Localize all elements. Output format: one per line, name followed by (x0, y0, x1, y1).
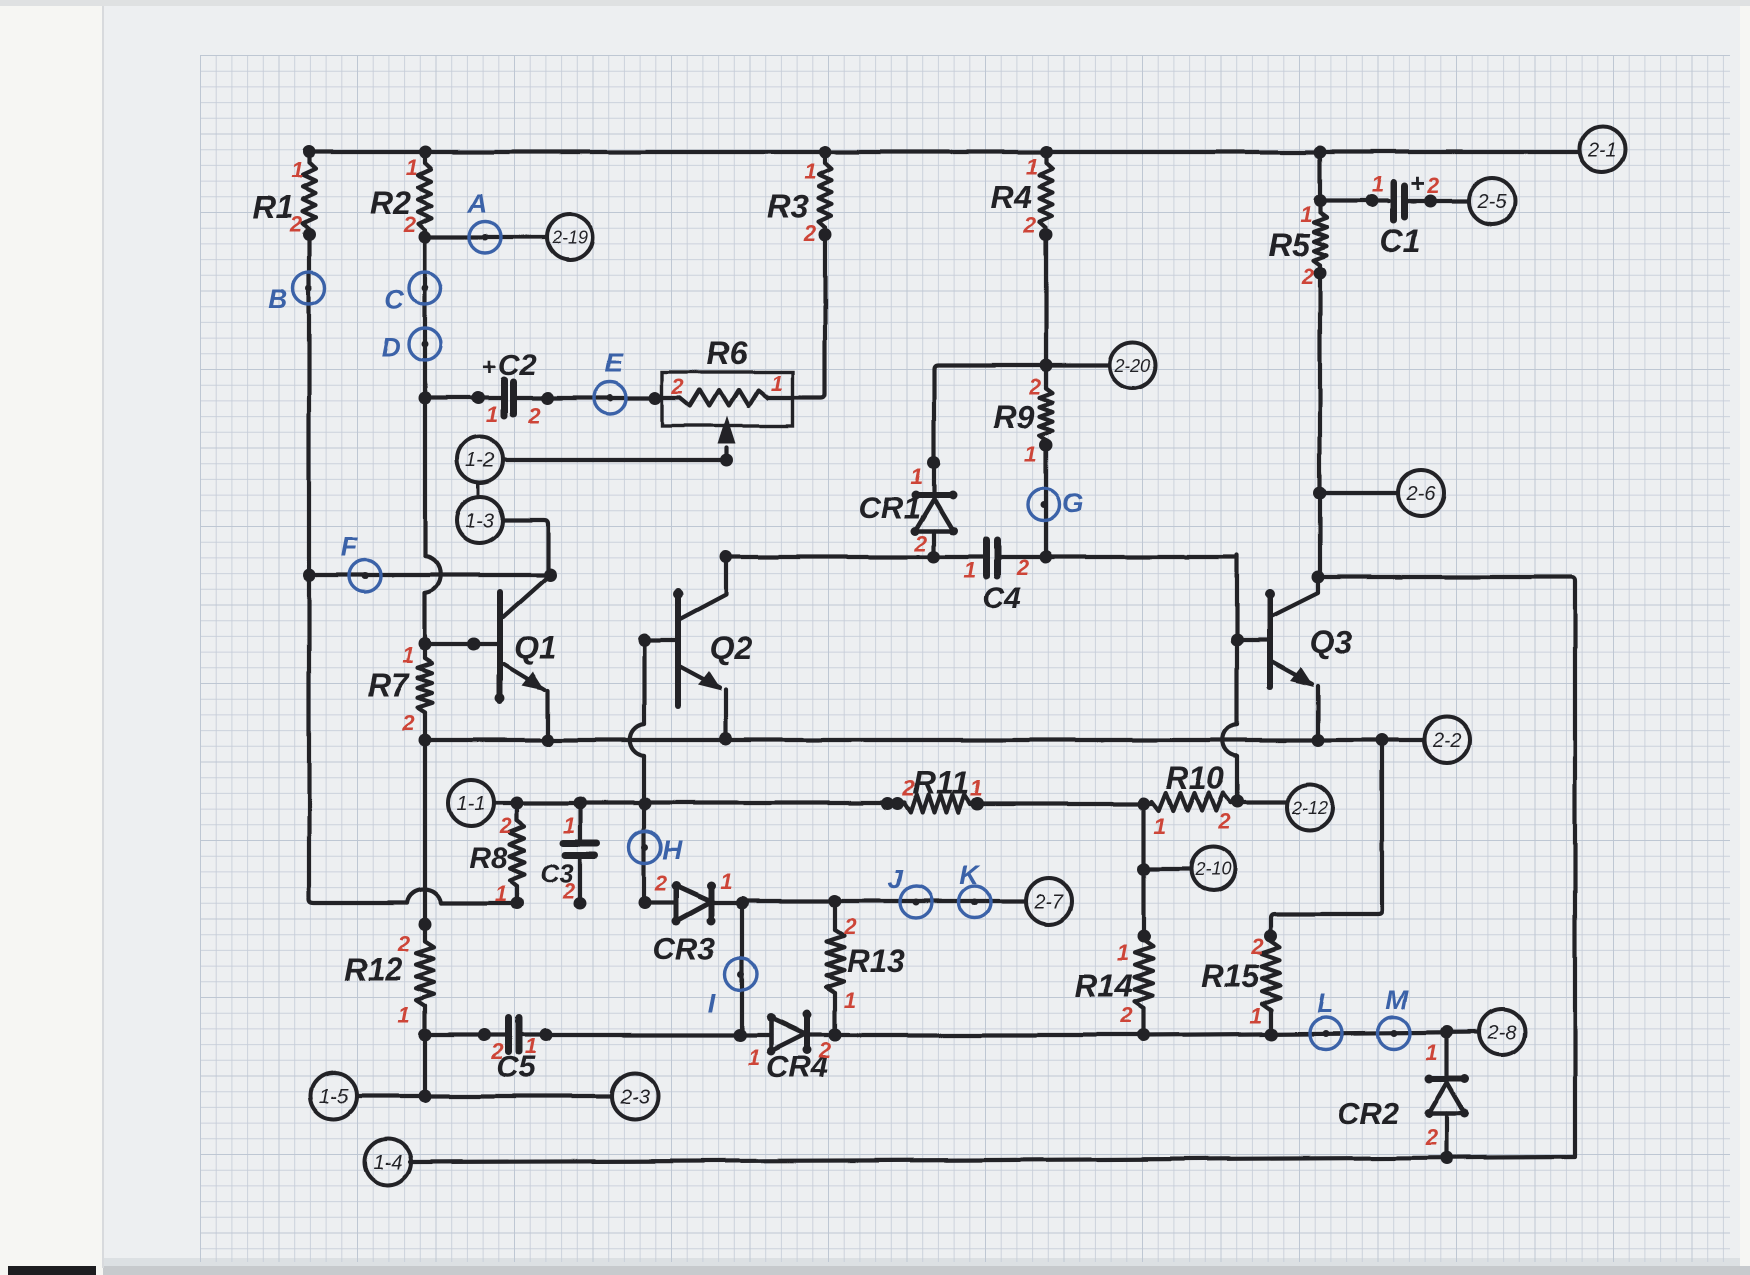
svg-text:2: 2 (1023, 213, 1037, 238)
R7 pin 2 (401, 710, 415, 735)
svg-text:Q2: Q2 (710, 630, 753, 666)
transistor Q2 (673, 557, 726, 739)
wire C4 row (Q2 collector node to CR1 and G) (720, 551, 1238, 564)
C3 label (540, 858, 574, 888)
C4 pin 2 (1016, 555, 1030, 580)
svg-text:I: I (708, 988, 716, 1018)
wire right side loop (Q3 collector row, right vertical) (1312, 571, 1576, 1157)
wire R13 column leads (829, 901, 842, 1042)
CR4 pin 1 (748, 1045, 760, 1070)
svg-text:1-1: 1-1 (457, 793, 486, 815)
CR1 label (859, 490, 921, 525)
C2 plus (482, 354, 496, 381)
wire 1-2 row to R6 wiper column (503, 454, 734, 467)
resistor R14 (1135, 940, 1153, 1035)
R10 pin 1 (1154, 814, 1166, 839)
resistor R5 (1314, 213, 1327, 265)
svg-text:E: E (605, 348, 624, 378)
svg-text:2: 2 (654, 871, 668, 896)
C4 label (983, 582, 1022, 615)
CR2 label (1337, 1096, 1399, 1131)
C5 pin 2 (491, 1039, 505, 1064)
test point G (1028, 488, 1084, 521)
R13 label (847, 943, 906, 979)
wire 1-5 to 2-3 row (357, 1094, 612, 1098)
svg-text:Q1: Q1 (514, 629, 557, 665)
potentiometer R6 (662, 372, 793, 460)
svg-text:1: 1 (1250, 1003, 1262, 1028)
R1 label (253, 189, 294, 225)
test point M (1378, 985, 1410, 1049)
wire Q3 base feed (1231, 555, 1271, 647)
R15 pin 2 (1251, 934, 1265, 959)
svg-text:2-8: 2-8 (1487, 1022, 1517, 1044)
wire emitter bus row (419, 733, 1425, 747)
node 2-10 (1191, 847, 1235, 891)
CR3 pin 1 (720, 869, 732, 894)
svg-text:M: M (1386, 985, 1409, 1015)
svg-text:1: 1 (720, 869, 732, 894)
R1 pin 2 (289, 212, 303, 237)
R8 pin 1 (495, 881, 507, 906)
transistor Q1 (495, 575, 550, 740)
R6 pin 2 (671, 374, 685, 399)
svg-text:1: 1 (291, 158, 303, 183)
svg-text:R11: R11 (913, 765, 969, 801)
R4 label (991, 179, 1032, 215)
resistor R9 (1040, 365, 1053, 445)
C3 pin 1 (563, 813, 575, 838)
svg-text:2: 2 (499, 813, 513, 838)
svg-text:1: 1 (402, 643, 414, 668)
node 2-1 (1579, 126, 1625, 172)
svg-text:R7: R7 (368, 667, 411, 703)
R13 pin 2 (843, 914, 857, 939)
svg-text:2: 2 (289, 212, 303, 237)
C1 plus (1409, 168, 1424, 198)
R8 pin 2 (499, 813, 513, 838)
svg-text:J: J (887, 864, 903, 894)
svg-text:2-19: 2-19 (551, 227, 588, 247)
svg-text:1: 1 (1371, 172, 1383, 197)
CR3 label (653, 931, 715, 966)
svg-text:2-10: 2-10 (1194, 859, 1231, 879)
R8 label (469, 842, 508, 875)
svg-text:2-6: 2-6 (1406, 483, 1437, 505)
wire top supply bus (303, 146, 1579, 159)
R11 pin 2 (902, 776, 916, 801)
R2 label (371, 185, 412, 221)
C2 label (498, 349, 537, 382)
svg-text:2: 2 (843, 914, 857, 939)
svg-text:1: 1 (563, 813, 575, 838)
R5 pin 2 (1301, 264, 1315, 289)
svg-text:2: 2 (902, 776, 916, 801)
node 2-19 (547, 214, 593, 260)
R1 pin 1 (291, 158, 303, 183)
test point K (959, 860, 991, 918)
wire C1 row (1320, 195, 1469, 208)
svg-text:C1: C1 (1380, 223, 1421, 259)
R7 label (368, 667, 411, 703)
svg-text:1: 1 (804, 159, 816, 184)
diode CR2 (1425, 1032, 1470, 1158)
svg-text:B: B (268, 284, 288, 314)
node 2-3 (612, 1073, 658, 1119)
resistor R12 (416, 941, 434, 1006)
wire R5 column lower (1314, 265, 1327, 577)
R12 pin 2 (397, 931, 411, 956)
svg-text:R5: R5 (1269, 227, 1311, 263)
svg-text:2: 2 (1251, 934, 1265, 959)
svg-text:2: 2 (1120, 1003, 1134, 1028)
node 1-5 (311, 1073, 357, 1119)
svg-text:F: F (341, 532, 359, 562)
svg-text:2: 2 (397, 931, 411, 956)
resistor R15 (1262, 941, 1280, 1034)
R6 label (707, 335, 748, 371)
test point L (1310, 988, 1342, 1049)
C5 label (497, 1051, 537, 1084)
svg-text:1: 1 (495, 881, 507, 906)
Q1 label (514, 629, 557, 665)
R9 label (994, 399, 1035, 435)
svg-text:2: 2 (1301, 264, 1315, 289)
wire R7-R12 column (419, 740, 432, 941)
svg-text:1: 1 (970, 776, 982, 801)
C3 pin 2 (562, 878, 576, 903)
capacitor C2 (504, 380, 513, 416)
svg-text:1-3: 1-3 (466, 510, 495, 532)
wire R14 column top (1138, 804, 1151, 943)
C1 pin 2 (1426, 173, 1440, 198)
wire node J K row to 2-7 (742, 895, 1026, 908)
svg-text:R12: R12 (344, 951, 403, 987)
wire node A row (R2 pin2 to 2-19) (419, 231, 548, 244)
wire L M row to 2-8 (835, 1026, 1479, 1042)
svg-text:2: 2 (1426, 173, 1440, 198)
R10 label (1166, 760, 1225, 796)
svg-text:L: L (1317, 988, 1334, 1018)
svg-text:G: G (1062, 488, 1083, 518)
svg-text:R10: R10 (1166, 760, 1225, 796)
wire R2 column lower (hops over F row) (425, 398, 441, 644)
wire 2-6 stub (1314, 487, 1399, 500)
CR1 pin 2 (914, 531, 928, 556)
wire node F row (303, 569, 557, 582)
svg-text:2: 2 (562, 878, 576, 903)
CR4 label (766, 1049, 828, 1084)
R14 label (1075, 968, 1134, 1004)
svg-text:C4: C4 (983, 582, 1022, 615)
svg-text:1-4: 1-4 (374, 1152, 403, 1174)
R15 label (1201, 958, 1261, 994)
wire CR1 top corner to 2-20 (928, 359, 1111, 470)
svg-text:1: 1 (1154, 814, 1166, 839)
wire Q3 base column to R10 (hops over emitter row) (1223, 640, 1237, 801)
svg-text:1: 1 (771, 371, 783, 396)
wire R2 column through C and D (423, 237, 427, 398)
diode CR3 (645, 882, 742, 926)
svg-text:2-7: 2-7 (1034, 891, 1065, 913)
wire 1-3 corner to Q1 collector node (503, 520, 548, 575)
wire R5 column upper (1314, 152, 1327, 213)
svg-text:2: 2 (914, 531, 928, 556)
R3 pin 2 (803, 221, 817, 246)
svg-text:Q3: Q3 (1310, 624, 1353, 660)
node 1-3 (457, 497, 503, 543)
node 2-2 (1424, 717, 1470, 763)
svg-text:1: 1 (398, 1002, 410, 1027)
svg-text:CR1: CR1 (859, 490, 921, 525)
svg-text:R15: R15 (1201, 958, 1261, 994)
resistor R10 (1152, 793, 1230, 811)
svg-text:2: 2 (401, 710, 415, 735)
svg-text:2: 2 (403, 212, 417, 237)
node 1-2 (457, 437, 503, 483)
wire bottom 1-4 row (410, 1152, 1575, 1165)
wire Q2 base column (hops over emitter row, through H) (630, 634, 678, 910)
R3 pin 1 (804, 159, 816, 184)
svg-text:2-12: 2-12 (1291, 797, 1328, 817)
test point B (268, 272, 325, 314)
svg-text:1: 1 (1026, 154, 1038, 179)
svg-text:2-3: 2-3 (620, 1086, 650, 1108)
test point D (381, 328, 441, 362)
R2 pin 2 (403, 212, 417, 237)
CR3 pin 2 (654, 871, 668, 896)
C1 pin 1 (1371, 172, 1383, 197)
svg-text:C: C (384, 284, 404, 314)
svg-text:1: 1 (1117, 940, 1129, 965)
R4 pin 2 (1023, 213, 1037, 238)
R11 pin 1 (970, 776, 982, 801)
node 2-5 (1469, 178, 1515, 224)
R4 pin 1 (1026, 154, 1038, 179)
svg-text:1-5: 1-5 (320, 1086, 350, 1108)
node 2-12 (1287, 784, 1333, 830)
svg-text:2: 2 (1016, 555, 1030, 580)
CR2 pin 2 (1425, 1125, 1439, 1150)
resistor R8 (510, 803, 525, 910)
resistor R4 (1040, 152, 1053, 235)
svg-text:R1: R1 (253, 189, 294, 225)
wire left column (R1 bottom to bottom-left corner) (303, 229, 518, 904)
node 1-1 (448, 780, 494, 826)
CR2 pin 1 (1426, 1040, 1438, 1065)
capacitor C4 (986, 540, 997, 576)
C2 pin 2 (527, 403, 541, 428)
svg-text:+: + (1409, 168, 1424, 198)
svg-text:CR3: CR3 (653, 931, 715, 966)
R15 pin 1 (1250, 1003, 1262, 1028)
svg-text:1: 1 (964, 558, 976, 583)
svg-text:2-1: 2-1 (1587, 139, 1617, 161)
svg-text:C2: C2 (498, 349, 537, 382)
test point E (594, 348, 626, 414)
svg-text:2: 2 (1425, 1125, 1439, 1150)
svg-text:R4: R4 (991, 179, 1032, 215)
test point J (887, 864, 932, 918)
svg-text:2: 2 (527, 403, 541, 428)
R6 pin 1 (771, 371, 783, 396)
C4 pin 1 (964, 558, 976, 583)
svg-text:R13: R13 (847, 943, 906, 979)
resistor R13 (826, 930, 844, 993)
wire 2-12 stub (1230, 795, 1287, 808)
node 2-20 (1110, 342, 1156, 388)
svg-text:1: 1 (525, 1034, 537, 1059)
node 2-8 (1479, 1009, 1525, 1055)
svg-text:1: 1 (1426, 1040, 1438, 1065)
R11 label (913, 765, 969, 801)
node 2-6 (1398, 470, 1444, 516)
svg-text:1: 1 (406, 155, 418, 180)
wire 1-2 tail (477, 484, 480, 497)
svg-text:2: 2 (1028, 374, 1042, 399)
R7 pin 1 (402, 643, 414, 668)
svg-text:D: D (381, 332, 401, 362)
svg-text:2-5: 2-5 (1477, 191, 1508, 213)
wire C5 CR4 row (425, 1029, 842, 1042)
test point I (708, 958, 757, 1018)
node 1-4 (365, 1139, 411, 1185)
wire Q1 base row (419, 638, 501, 651)
svg-text:1: 1 (1025, 442, 1037, 467)
test point H (629, 831, 682, 865)
R14 pin 2 (1120, 1003, 1134, 1028)
svg-text:1: 1 (486, 402, 498, 427)
node 2-7 (1026, 878, 1072, 924)
wire 1-1 row (494, 797, 905, 811)
svg-text:2: 2 (803, 221, 817, 246)
capacitor C5 (509, 1018, 519, 1052)
R14 pin 1 (1117, 940, 1129, 965)
R12 label (344, 951, 403, 987)
svg-text:CR2: CR2 (1337, 1096, 1399, 1131)
wire R15 branch from emitter row (1265, 740, 1383, 943)
wire R3 drop to R6 pin 1 (793, 229, 832, 399)
svg-text:+: + (482, 354, 496, 381)
svg-text:R8: R8 (469, 842, 508, 875)
svg-text:R14: R14 (1075, 968, 1134, 1004)
transistor Q3 (1265, 577, 1318, 740)
svg-text:R6: R6 (707, 335, 748, 371)
R9 pin 1 (1025, 442, 1037, 467)
svg-text:2: 2 (491, 1039, 505, 1064)
svg-text:2: 2 (671, 374, 685, 399)
Q3 label (1310, 624, 1353, 660)
resistor R11 (905, 795, 970, 813)
svg-text:1: 1 (1300, 202, 1312, 227)
wire R4 to R9 segment (1040, 229, 1053, 366)
svg-text:K: K (959, 860, 981, 890)
wire C2 row (419, 392, 663, 405)
svg-text:2-20: 2-20 (1114, 355, 1151, 375)
R5 pin 1 (1300, 202, 1312, 227)
C2 pin 1 (486, 402, 498, 427)
resistor R1 (303, 152, 316, 235)
C5 pin 1 (525, 1034, 537, 1059)
svg-text:2: 2 (1217, 809, 1231, 834)
wire 2-10 stub (1138, 863, 1191, 876)
diode CR4 (767, 1011, 812, 1056)
wire R12 to 1-5 row (419, 1006, 432, 1103)
R12 pin 1 (398, 1002, 410, 1027)
resistor R2 (419, 152, 432, 237)
resistor R7 (418, 644, 433, 740)
CR4 pin 2 (818, 1038, 832, 1063)
R13 pin 1 (844, 988, 856, 1013)
wire node I column (736, 897, 749, 1036)
resistor R3 (819, 152, 832, 235)
svg-text:R3: R3 (768, 189, 809, 225)
wire node G column (1040, 439, 1053, 558)
R3 label (768, 189, 809, 225)
diode CR1 (911, 463, 958, 557)
svg-text:1-2: 1-2 (466, 450, 495, 472)
R2 pin 1 (406, 155, 418, 180)
R10 pin 2 (1217, 809, 1231, 834)
svg-text:2: 2 (818, 1038, 832, 1063)
svg-text:1: 1 (844, 988, 856, 1013)
wire R11-R14 junction row (970, 798, 1152, 811)
test point A (466, 188, 501, 253)
capacitor C1 (1393, 183, 1404, 220)
R5 label (1269, 227, 1311, 263)
svg-text:A: A (466, 188, 487, 218)
svg-text:2-2: 2-2 (1432, 730, 1462, 752)
C1 label (1380, 223, 1421, 259)
svg-text:1: 1 (911, 464, 923, 489)
test point C (384, 272, 441, 314)
svg-text:R9: R9 (994, 399, 1035, 435)
capacitor C3 (563, 803, 597, 910)
CR1 pin 1 (911, 464, 923, 489)
test point F (341, 532, 381, 592)
svg-text:1: 1 (748, 1045, 760, 1070)
svg-text:H: H (662, 835, 682, 865)
R9 pin 2 (1028, 374, 1042, 399)
Q2 label (710, 630, 753, 666)
